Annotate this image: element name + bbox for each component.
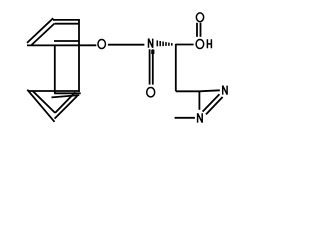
ring A left vertical bond: [54, 45, 56, 93]
carboxyl C=O double bond line left: [196, 23, 198, 37]
bond O to N: [108, 44, 144, 46]
ring B right arm lower bond: [55, 96, 78, 119]
carbamate N=O double bond line right: [152, 49, 154, 84]
ring A top bond inner (double): [55, 23, 79, 25]
ring B right arm upper bond: [55, 92, 75, 113]
atom label N carbamate: [149, 39, 153, 48]
atom label N ring right: [223, 86, 227, 95]
ring A right vertical bond: [78, 19, 80, 92]
carbamate N=O double bond line left: [149, 49, 151, 84]
ring A top bond outer: [53, 19, 80, 21]
ring B V left arm outer bond: [27, 90, 54, 122]
hashed wedge bond N to chiral C: [157, 40, 172, 46]
bond chiral C to OH: [176, 44, 194, 46]
side chain horizontal bond CH2: [176, 90, 200, 92]
ring B bottom horizontal lower bond: [54, 92, 80, 94]
atom label N ring bottom: [198, 113, 203, 122]
ring B shallow bond: [52, 95, 80, 97]
atom label O of OH carboxyl: [196, 40, 204, 49]
atom label H of OH carboxyl: [207, 39, 211, 48]
bond ring C to N right: [199, 90, 219, 91]
side chain vertical bond from chiral C: [175, 44, 177, 92]
ring A short horizontal bond (double): [54, 40, 80, 42]
N=N double bond line lower: [206, 97, 223, 114]
ring A diagonal bond inner (double): [32, 23, 55, 45]
ring A long horizontal bond to O: [27, 44, 96, 46]
ring B V left arm inner bond: [33, 91, 55, 113]
bond ring C down to N bottom: [198, 91, 200, 110]
N methyl bond: [175, 117, 195, 119]
N=N double bond line upper: [203, 94, 220, 111]
carboxyl C=O double bond line right: [200, 23, 202, 37]
atom label O ester: [98, 40, 106, 49]
carbamate collapsed C stub: [151, 50, 154, 54]
atom label O carboxyl carbonyl: [196, 13, 203, 22]
ring B bottom horizontal upper bond: [28, 90, 80, 92]
ring A diagonal bond outer: [27, 18, 53, 43]
atom label O carbamate carbonyl: [147, 88, 155, 97]
